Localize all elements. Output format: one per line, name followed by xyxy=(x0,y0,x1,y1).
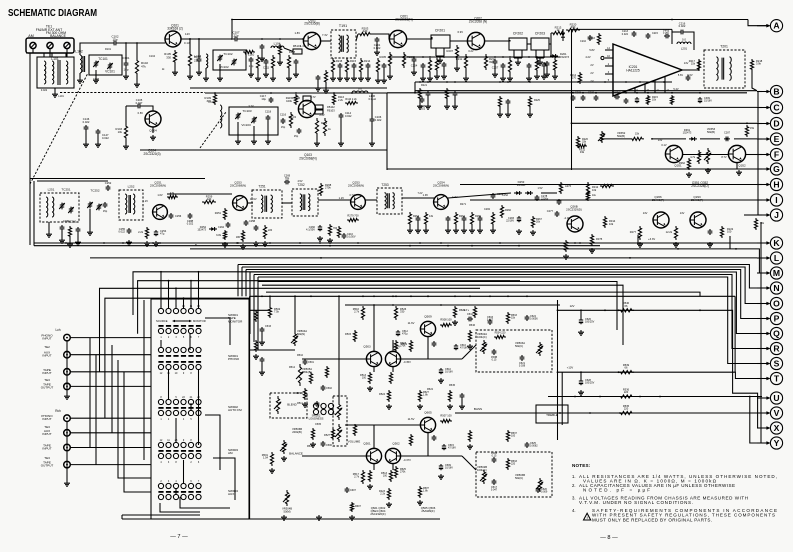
svg-text:1N34A: 1N34A xyxy=(517,183,526,187)
svg-text:0.15: 0.15 xyxy=(492,359,497,362)
resistor R106 xyxy=(256,55,259,70)
resistor R27x xyxy=(600,184,614,187)
capacitor C118 xyxy=(266,115,271,121)
resistor R267 xyxy=(531,216,534,228)
node F xyxy=(757,148,783,160)
svg-text:1.: 1. xyxy=(572,474,576,479)
svg-text:C118: C118 xyxy=(265,110,272,114)
jack PHONO INPUT Rch xyxy=(64,415,71,422)
trimmer TC251 xyxy=(60,203,64,210)
ground R224 xyxy=(497,112,503,117)
svg-text:2SC2668(N): 2SC2668(N) xyxy=(395,18,413,22)
svg-text:220: 220 xyxy=(511,463,516,466)
svg-text:R511: R511 xyxy=(297,402,303,405)
ground CF201 xyxy=(437,58,443,63)
svg-text:C208: C208 xyxy=(575,92,582,95)
svg-text:6.9V: 6.9V xyxy=(457,30,463,34)
pin 1 IC201 output xyxy=(682,69,690,71)
wire jack 3 to switch xyxy=(70,371,151,373)
ground C509 xyxy=(438,474,444,479)
ground R105 xyxy=(172,70,178,75)
contact bars SW904 xyxy=(158,450,201,452)
svg-text:+13V: +13V xyxy=(567,366,574,370)
wire node J feed xyxy=(744,214,757,216)
node D xyxy=(757,117,783,129)
wire row2 left drop xyxy=(33,181,35,246)
resistor R321 xyxy=(586,191,589,201)
trimmer block TC252 xyxy=(88,202,92,209)
junction dots xyxy=(189,38,191,40)
wire R203 to Q201 xyxy=(372,34,390,39)
svg-text:Rch: Rch xyxy=(55,409,61,413)
svg-text:2SC2958(N): 2SC2958(N) xyxy=(348,184,364,188)
svg-text:C282: C282 xyxy=(484,208,491,211)
svg-text:270k: 270k xyxy=(400,471,406,474)
ceramic filter CF202 xyxy=(509,38,527,50)
svg-text:0.009: 0.009 xyxy=(541,491,548,494)
resistor R303 xyxy=(670,95,673,105)
capacitor C502 xyxy=(321,385,326,391)
svg-text:4.7k: 4.7k xyxy=(690,155,696,159)
ground C283 xyxy=(516,229,522,234)
ground R509 xyxy=(302,402,308,407)
svg-text:5.8V: 5.8V xyxy=(589,48,595,52)
ground CF203 xyxy=(537,60,543,65)
variable resistor VR504B xyxy=(276,396,279,414)
ground R108 xyxy=(286,76,292,81)
svg-text:R263: R263 xyxy=(413,215,420,218)
ground C114 xyxy=(338,141,344,146)
resistor R534 xyxy=(494,335,506,338)
capacitor C255 xyxy=(127,228,132,234)
wire jack cross 2 xyxy=(95,355,97,465)
svg-text:10k: 10k xyxy=(609,222,614,226)
svg-text:R115: R115 xyxy=(350,59,357,63)
svg-text:M: M xyxy=(773,268,780,278)
svg-text:C533: C533 xyxy=(265,325,272,328)
resistor R504 xyxy=(254,310,257,322)
svg-text:152473: 152473 xyxy=(560,55,570,59)
svg-text:R515: R515 xyxy=(345,333,352,336)
capacitor C265 xyxy=(60,225,65,231)
capacitor C526 xyxy=(579,318,583,324)
resistor R508 xyxy=(440,323,452,326)
transistor Q251 xyxy=(153,205,168,220)
capacitor C278 xyxy=(535,195,540,201)
ground C101 xyxy=(123,74,129,79)
ground C118 xyxy=(265,139,271,144)
svg-text:0.0: 0.0 xyxy=(358,87,362,91)
svg-text:Q503: Q503 xyxy=(363,345,371,349)
svg-text:0.022: 0.022 xyxy=(375,118,382,122)
svg-text:100: 100 xyxy=(727,230,732,234)
capacitor C302 xyxy=(624,98,629,104)
transformer T251 xyxy=(252,190,282,218)
resistor R507 xyxy=(440,419,452,422)
svg-text:47/16V: 47/16V xyxy=(460,347,468,350)
wire tone connector 2 xyxy=(250,349,295,351)
svg-text:T: T xyxy=(774,373,780,383)
svg-text:1.8k: 1.8k xyxy=(423,394,428,397)
capacitor C266 xyxy=(76,227,81,233)
resistor R277 xyxy=(638,226,641,240)
svg-text:15p: 15p xyxy=(294,134,299,138)
ground VC103 xyxy=(251,139,257,144)
resistor R122 xyxy=(324,70,327,84)
svg-text:INPUT: INPUT xyxy=(42,354,51,358)
svg-text:Q605: Q605 xyxy=(424,411,432,415)
capacitor C501 xyxy=(303,359,308,365)
resistor R205 xyxy=(388,52,391,68)
ferrite bead FB103 xyxy=(315,110,323,114)
resistor R207 xyxy=(455,45,458,60)
capacitor C277 xyxy=(478,216,483,222)
capacitor C211 xyxy=(664,34,670,39)
wire bus band 3 xyxy=(246,270,762,319)
wire rail V xyxy=(455,412,762,414)
svg-text:J: J xyxy=(774,210,779,220)
resistor R105 xyxy=(173,50,176,64)
svg-text:12V: 12V xyxy=(570,304,575,308)
svg-text:2SC535(B): 2SC535(B) xyxy=(304,22,320,26)
ground TC252 xyxy=(87,230,93,235)
wire jack 2 to switch xyxy=(70,354,151,356)
svg-text:1.6V: 1.6V xyxy=(157,193,163,197)
diode D214 xyxy=(562,29,564,41)
ground below L101 xyxy=(52,92,58,97)
svg-text:R277: R277 xyxy=(630,230,637,234)
capacitor C120 xyxy=(382,63,387,69)
wire jack 1 to switch xyxy=(70,337,151,339)
svg-text:33k: 33k xyxy=(580,150,585,154)
wire bottom rail xyxy=(122,518,440,520)
svg-text:TC103: TC103 xyxy=(242,109,251,113)
resistor R314 xyxy=(603,216,606,228)
svg-text:L252: L252 xyxy=(128,185,135,189)
resistor R111 xyxy=(289,112,292,128)
ground R256 xyxy=(240,244,246,249)
wire to D201 xyxy=(550,44,552,56)
svg-text:VC102: VC102 xyxy=(219,65,229,69)
svg-text:200k(B): 200k(B) xyxy=(292,430,302,434)
svg-text:25A999(F): 25A999(F) xyxy=(421,509,434,513)
resistor R268 xyxy=(319,183,322,196)
svg-text:TE3: TE3 xyxy=(44,378,50,382)
capacitor C216 xyxy=(679,30,685,35)
ground C526 xyxy=(578,330,584,335)
resistor R270 xyxy=(337,226,340,238)
contact bars SW905 xyxy=(158,491,201,493)
loudness switch SW502 xyxy=(313,403,333,408)
wire jack 4 to switch xyxy=(70,385,151,387)
svg-text:L102: L102 xyxy=(75,50,83,54)
variable cap VC103 xyxy=(252,117,256,124)
svg-text:MUST ONLY BE REPLACED BY ORIGI: MUST ONLY BE REPLACED BY ORIGINAL PARTS. xyxy=(592,517,712,522)
wire Q502 emitter down xyxy=(392,464,394,470)
svg-text:0.1V: 0.1V xyxy=(184,41,190,45)
resistor R501 xyxy=(270,452,273,466)
resistor R260 xyxy=(408,212,411,226)
wire node G feed xyxy=(736,163,738,169)
transformer T191 xyxy=(331,30,356,58)
capacitor C121 xyxy=(316,75,321,81)
svg-text:AUTO FM: AUTO FM xyxy=(228,408,242,412)
jack PHONO INPUT Lch xyxy=(64,334,71,341)
svg-text:11.6V: 11.6V xyxy=(408,321,415,325)
svg-text:0.022: 0.022 xyxy=(345,114,352,118)
wire row1 rail d xyxy=(190,87,387,89)
wire node B feed xyxy=(415,90,757,92)
pin numbers SW901 top xyxy=(160,305,200,308)
wire amp1 rail xyxy=(401,358,462,360)
svg-text:R508 100: R508 100 xyxy=(440,318,452,322)
pin 7 IC201 circle xyxy=(601,56,604,59)
diode D201 xyxy=(550,55,558,57)
resistor R527 xyxy=(418,390,421,402)
svg-text:P: P xyxy=(774,313,780,323)
variable cap VC102 xyxy=(232,59,236,66)
capacitor C273 xyxy=(446,216,451,222)
resistor R522 xyxy=(418,486,421,498)
ground VR354 xyxy=(705,168,711,173)
wire tape feed 4 xyxy=(105,298,250,418)
resistor R545 xyxy=(448,390,451,402)
variable resistor VR503B xyxy=(538,478,541,492)
wire bus band 1 xyxy=(238,265,762,289)
coil L104 xyxy=(271,46,284,48)
svg-text:3.9k: 3.9k xyxy=(756,62,762,66)
svg-text:4.1/35V: 4.1/35V xyxy=(306,228,315,232)
svg-text:1.54: 1.54 xyxy=(263,456,269,460)
svg-text:C505: C505 xyxy=(315,423,322,426)
capacitor C509 xyxy=(439,464,443,470)
resistor R230 xyxy=(435,58,438,72)
svg-text:C148: C148 xyxy=(93,78,100,81)
svg-text:INPUT: INPUT xyxy=(42,447,51,451)
capacitor C107 xyxy=(233,37,239,42)
capacitor C288 xyxy=(188,213,193,219)
pin numbers SW903 top xyxy=(160,396,200,399)
resistor R214 xyxy=(359,58,362,74)
svg-text:Q502: Q502 xyxy=(392,442,400,446)
pin bottom 9 IC201 xyxy=(634,88,636,93)
ground R546 xyxy=(467,344,473,349)
wire R222 junction to M xyxy=(729,236,731,249)
svg-text:H: H xyxy=(773,179,779,189)
resistor R213 xyxy=(551,31,565,34)
svg-text:INPUT: INPUT xyxy=(42,337,51,341)
transistor Q266 xyxy=(653,212,669,228)
ground R106 xyxy=(255,76,261,81)
svg-text:SCHEMATIC DIAGRAM: SCHEMATIC DIAGRAM xyxy=(8,7,97,19)
svg-text:I: I xyxy=(775,195,777,205)
ground C147 xyxy=(95,142,101,147)
capacitor C521 xyxy=(520,355,525,361)
resistor R121 xyxy=(376,58,379,74)
svg-text:R279 700: R279 700 xyxy=(347,214,359,218)
svg-text:R225: R225 xyxy=(534,99,541,102)
svg-text:L101: L101 xyxy=(58,95,64,98)
svg-text:47k: 47k xyxy=(141,65,146,69)
capacitor C530 xyxy=(260,327,265,333)
node J xyxy=(757,209,783,221)
variable resistor VR506A xyxy=(337,402,340,420)
ground C209 xyxy=(544,72,550,77)
resistor R256 xyxy=(241,230,244,242)
wire bus band extra 2 xyxy=(262,285,623,345)
wire bus band 2 drop xyxy=(241,267,243,296)
wire Q503 emitter down xyxy=(373,367,375,372)
wire letter trunk 2 xyxy=(760,222,762,443)
resistor R225 xyxy=(528,96,531,108)
capacitor C147 xyxy=(96,129,101,135)
switch SW902 row 2 xyxy=(158,364,201,369)
resistor R513 xyxy=(368,372,371,384)
svg-text:14V: 14V xyxy=(680,211,685,215)
capacitor C512 xyxy=(396,330,400,336)
ground R260 xyxy=(67,242,73,247)
variable resistor VR352 xyxy=(600,131,603,143)
wire node A feed xyxy=(748,20,767,26)
svg-text:T253: T253 xyxy=(381,183,388,187)
pin numbers SW904 bottom xyxy=(160,461,200,464)
svg-text:2SC2068(N): 2SC2068(N) xyxy=(433,184,449,188)
tuning box L251 TC251 xyxy=(40,193,79,222)
resistor R112 xyxy=(315,118,318,136)
ground R297 xyxy=(262,241,268,246)
svg-text:R545: R545 xyxy=(449,384,456,387)
screw terminal FM2 xyxy=(64,42,70,48)
capacitor C213 xyxy=(352,63,357,69)
svg-text:R546: R546 xyxy=(469,324,476,327)
jack AUX INPUT Rch xyxy=(64,430,71,437)
svg-text:5.6V: 5.6V xyxy=(678,74,683,77)
svg-text:11.5V: 11.5V xyxy=(408,417,415,421)
svg-text:270k: 270k xyxy=(325,186,331,190)
node X xyxy=(757,422,783,434)
capacitor C105 xyxy=(136,104,142,109)
svg-text:OUTPUT: OUTPUT xyxy=(41,464,54,468)
svg-text:47/16V: 47/16V xyxy=(448,447,456,450)
capacitor C607 xyxy=(345,487,350,493)
svg-text:!: ! xyxy=(586,516,587,520)
resistor R362 xyxy=(687,158,690,170)
resistor R210 xyxy=(331,58,334,74)
transistor Q352 xyxy=(728,145,745,162)
wire Q266 junction to K xyxy=(637,235,639,243)
capacitor C514 xyxy=(432,435,437,441)
svg-text:1.8k: 1.8k xyxy=(423,490,428,493)
ground C510 xyxy=(438,378,444,383)
diode D253 xyxy=(514,192,522,194)
svg-text:TC101: TC101 xyxy=(98,57,108,61)
wire bus band 4 xyxy=(250,272,762,334)
coil L103 xyxy=(206,54,208,68)
resistor R540 xyxy=(619,309,635,312)
svg-text:0.022: 0.022 xyxy=(83,120,90,124)
resistor R104 xyxy=(188,52,191,68)
svg-text:R271: R271 xyxy=(460,203,467,206)
node L xyxy=(757,252,783,264)
capacitor C303 xyxy=(635,97,639,103)
wire T201 out to node B trunk xyxy=(752,71,757,91)
resistor R539 xyxy=(619,371,635,374)
resistor R286 xyxy=(630,137,644,140)
resistor R221 xyxy=(418,88,421,100)
svg-text:7.3V: 7.3V xyxy=(322,33,328,37)
capacitor C511 xyxy=(432,341,437,347)
pin bottom 12 IC201 xyxy=(664,76,666,92)
capacitor C287 xyxy=(614,95,620,100)
capacitor C524 xyxy=(525,315,530,321)
ground C110 xyxy=(248,72,254,77)
switch SW903 row 1 xyxy=(158,399,201,404)
svg-text:2SC2058 (N): 2SC2058 (N) xyxy=(469,20,487,24)
resistor R220 xyxy=(566,28,580,31)
resistor R546 xyxy=(468,330,471,342)
ground R278 xyxy=(673,242,679,247)
capacitor C525 xyxy=(525,442,530,448)
capacitor C233 xyxy=(542,62,547,68)
ground R205 xyxy=(387,74,393,79)
wire tone connector 5 xyxy=(347,424,420,426)
svg-text:-0.35V: -0.35V xyxy=(403,360,411,364)
wire C216 right xyxy=(685,32,694,50)
svg-text:R516: R516 xyxy=(307,445,314,448)
wire bus band 4 drop xyxy=(249,272,251,334)
resistor R222 xyxy=(720,226,723,238)
svg-text:— 8 —: — 8 — xyxy=(600,535,618,541)
resistor R215b xyxy=(646,95,649,105)
pin 2 IC201 xyxy=(605,49,613,51)
ground C113 xyxy=(293,72,299,77)
pin numbers SW901 bottom xyxy=(160,336,200,339)
trimmer TC101 xyxy=(94,61,98,68)
audio section box left xyxy=(249,296,251,519)
svg-text:100k(C): 100k(C) xyxy=(477,335,487,339)
wire audio box bottom to node G xyxy=(387,168,757,170)
wire C105 in xyxy=(126,105,136,107)
pin numbers SW904 top xyxy=(160,439,200,442)
svg-text:220: 220 xyxy=(207,197,212,201)
wire node I feed xyxy=(470,199,757,201)
node P xyxy=(757,312,783,324)
svg-text:-2.0V: -2.0V xyxy=(564,216,570,220)
svg-text:1.9V: 1.9V xyxy=(423,193,429,197)
coil box L252 xyxy=(119,190,143,220)
ground R511 xyxy=(367,484,373,489)
svg-text:152473: 152473 xyxy=(197,228,206,232)
ceramic filter CF201 xyxy=(431,35,450,48)
svg-text:R266: R266 xyxy=(505,209,512,212)
svg-text:22p: 22p xyxy=(234,33,239,37)
svg-text:2SC2329(D): 2SC2329(D) xyxy=(566,207,582,211)
pin 4 IC201 xyxy=(605,65,613,67)
capacitor C309 xyxy=(698,97,702,103)
resistor R529 xyxy=(453,306,456,318)
ground R223 xyxy=(444,104,450,109)
svg-text:CF202: CF202 xyxy=(513,32,523,36)
tone network lower box xyxy=(476,452,552,497)
ground C204 xyxy=(411,70,417,75)
svg-text:L105: L105 xyxy=(208,100,215,104)
transistor Q501 xyxy=(366,448,381,463)
svg-text:R524: R524 xyxy=(379,393,386,396)
capacitor C215 xyxy=(366,63,371,69)
capacitor C214 xyxy=(686,75,691,81)
resistor R212 xyxy=(345,58,348,74)
svg-text:CF203: CF203 xyxy=(535,32,545,36)
